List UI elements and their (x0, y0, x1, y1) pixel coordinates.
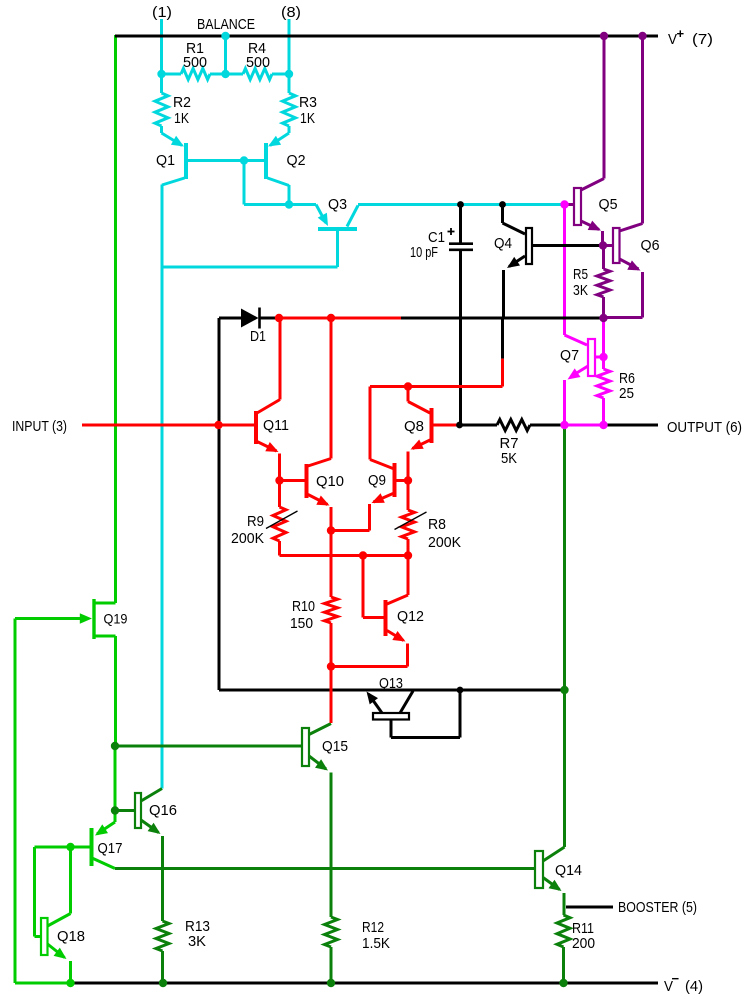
wire Q19 gate to bottom rail (15, 619, 73, 984)
junction R11 / V- (559, 979, 567, 987)
svg-text:1.5K: 1.5K (362, 935, 390, 952)
wire Q19 source down (114, 636, 117, 746)
transistor Q8 (404, 387, 460, 481)
svg-text:(8): (8) (281, 4, 301, 21)
transistor Q15 (302, 724, 348, 918)
transistor Q9 (331, 387, 408, 531)
junction Q19 source / Q15 base (111, 742, 119, 750)
svg-text:R12: R12 (362, 919, 384, 936)
transistor Q7 (560, 339, 604, 425)
junction Q10 collector top (327, 314, 335, 322)
wire pin8 lead (288, 19, 291, 74)
svg-text:+: + (677, 26, 685, 41)
svg-text:Q19: Q19 (104, 611, 128, 627)
svg-text:3K: 3K (188, 933, 206, 950)
junction V+ Q5 (600, 32, 608, 40)
junction V+ Q6 (638, 32, 646, 40)
junction input / D1 net (214, 421, 222, 429)
junction Q16 base / Q17 emitter (111, 806, 119, 814)
capacitor C1 (410, 206, 473, 423)
junction balance top (221, 32, 229, 40)
svg-text:500: 500 (183, 54, 207, 71)
resistor R6 (597, 318, 635, 425)
wire R1-R4 row (162, 73, 290, 76)
junction balance/R1/R4 (221, 70, 229, 78)
svg-text:1K: 1K (174, 110, 189, 127)
wire input net (277, 317, 402, 320)
junction Q13 base (457, 687, 464, 694)
wire V- rail (73, 982, 658, 985)
transistor Q5 (566, 188, 618, 244)
svg-text:10 pF: 10 pF (410, 244, 438, 261)
junction D1 cathode (275, 314, 283, 322)
junction R6 bottom / output (599, 421, 607, 429)
svg-text:Q16: Q16 (149, 802, 177, 819)
junction Q8 base / R7 / C1 (456, 422, 463, 429)
diode D1 (241, 308, 277, 346)
junction Q17 base / Q18 collector (66, 843, 74, 851)
wire Q2 collector to Q3 node (244, 161, 289, 205)
svg-text:Q5: Q5 (599, 196, 618, 213)
svg-text:200K: 200K (428, 534, 461, 551)
wire Q8 collector bus (370, 359, 503, 387)
transistor Q16 (115, 789, 177, 922)
transistor Q3 (289, 196, 358, 229)
transistor Q12 (363, 556, 424, 667)
resistor R12 (325, 917, 391, 983)
resistor R8 (395, 481, 462, 556)
wire Q12 emitter return (331, 665, 408, 668)
svg-text:INPUT (3): INPUT (3) (12, 418, 67, 435)
wire Q5 collector to V+ (581, 36, 604, 190)
junction Q8 emitter / Q9 base / R8 (404, 476, 412, 484)
transistor Q14 (535, 851, 582, 915)
junction C1 top (457, 201, 464, 208)
svg-text:R8: R8 (428, 516, 446, 533)
junction Q18 emitter / V- (66, 979, 74, 987)
svg-text:Q4: Q4 (494, 235, 512, 252)
wire input line (82, 424, 254, 427)
junction Q1-Q2 base (240, 156, 248, 164)
svg-text:(4): (4) (685, 978, 703, 995)
svg-text:OUTPUT (6): OUTPUT (6) (667, 419, 742, 436)
resistor R13 (156, 918, 210, 983)
transistor Q13 (367, 675, 461, 738)
junction R13 / V- (159, 979, 167, 987)
wire booster lead (566, 906, 613, 909)
wire Q3 collector return (162, 230, 338, 267)
junction R8 bottom / Q12 collector (404, 551, 412, 559)
wire Q17 base to Q18 base (35, 847, 71, 937)
svg-text:R9: R9 (247, 513, 264, 530)
svg-text:Q10: Q10 (316, 473, 344, 490)
svg-text:R3: R3 (299, 94, 317, 111)
wire Q15 collector (330, 667, 333, 724)
svg-text:Q15: Q15 (322, 738, 348, 755)
svg-text:D1: D1 (250, 328, 266, 345)
transistor Q1 (156, 126, 244, 185)
junction Q4 collector (499, 201, 506, 208)
resistor R4 (243, 40, 272, 80)
wire Q7 collector (565, 205, 588, 346)
wire mirror bus (280, 554, 409, 557)
svg-text:3K: 3K (573, 282, 588, 299)
wire V+ rail tap (left vertical) (114, 35, 117, 603)
junction Q7 collector / Q5 base (560, 200, 568, 208)
svg-text:R10: R10 (292, 598, 315, 615)
svg-text:Q7: Q7 (560, 347, 579, 364)
svg-text:Q14: Q14 (555, 862, 582, 879)
svg-text:Q3: Q3 (328, 196, 347, 213)
svg-text:BOOSTER (5): BOOSTER (5) (618, 899, 697, 916)
wire compensation node (401, 318, 601, 359)
svg-text:Q18: Q18 (57, 928, 85, 945)
svg-text:Q2: Q2 (287, 152, 306, 169)
node V- (4) (664, 971, 703, 995)
svg-text:500: 500 (246, 54, 270, 71)
wire V+ rail (115, 35, 658, 38)
wire Q3 to Q5 base (358, 203, 563, 206)
svg-text:R5: R5 (573, 266, 588, 283)
svg-text:(1): (1) (152, 4, 172, 21)
svg-text:Q17: Q17 (98, 840, 123, 857)
svg-text:5K: 5K (501, 450, 517, 467)
svg-text:(7): (7) (692, 31, 713, 48)
junction R5 bottom (599, 314, 607, 322)
junction Q12 base (359, 551, 367, 559)
transistor Q17 (71, 811, 123, 869)
junction Q5 emitter / Q6 base (599, 241, 607, 249)
junction R12 / V- (327, 979, 335, 987)
junction R10 bottom / Q12 emitter (327, 662, 335, 670)
wire output lead (605, 424, 658, 427)
wire Q16 base node (114, 746, 117, 811)
svg-text:150: 150 (290, 615, 313, 632)
wire D1 anode (219, 318, 241, 690)
svg-text:25: 25 (619, 385, 634, 402)
svg-text:1K: 1K (300, 110, 315, 127)
transistor Q11 (256, 318, 289, 481)
resistor R3 (283, 74, 318, 127)
wire balance tap (224, 36, 227, 74)
junction Q8 collector (404, 382, 412, 390)
junction pin8/R4 (285, 70, 293, 78)
wire emitter-follower rail (115, 867, 535, 870)
resistor R10 (290, 531, 338, 667)
wire Q6 collector to V+ (620, 36, 643, 231)
resistor R9 (231, 481, 298, 556)
svg-text:Q9: Q9 (368, 472, 386, 489)
svg-text:Q12: Q12 (397, 608, 424, 625)
svg-text:Q1: Q1 (156, 152, 175, 169)
transistor Q18 (41, 918, 85, 983)
transistor Q19 (15, 599, 128, 639)
transistor Q4 (494, 205, 601, 318)
transistor Q10 (280, 318, 345, 531)
wire pin1 lead (160, 19, 163, 74)
svg-text:Q11: Q11 (263, 417, 289, 434)
resistor R7 (460, 420, 563, 468)
junction Q2 collector (285, 200, 293, 208)
junction Q7 emitter / output (560, 421, 568, 429)
svg-text:Q13: Q13 (379, 675, 403, 692)
resistor R2 (155, 74, 191, 127)
resistor R11 (557, 915, 595, 983)
junction Q7 base / R6 top (599, 353, 607, 361)
svg-text:R2: R2 (173, 94, 191, 111)
svg-text:Q6: Q6 (641, 237, 660, 254)
svg-text:200K: 200K (231, 530, 264, 547)
svg-text:BALANCE: BALANCE (197, 16, 255, 33)
junction Q10 emitter (327, 526, 335, 534)
junction Q13 / Q14 net (560, 686, 568, 694)
junction Q11 emitter / R9 (275, 476, 283, 484)
wire Q1 collector tail (long vertical) (161, 185, 164, 789)
wire output to Q14 collector (543, 425, 565, 861)
resistor R1 (181, 40, 210, 80)
transistor Q2 (244, 126, 306, 186)
junction pin1/R1 (157, 70, 165, 78)
svg-text:−: − (672, 971, 680, 986)
node V+ (7) (668, 26, 713, 48)
wire Q18 collector (48, 847, 71, 926)
wire output joint (565, 424, 604, 427)
wire Q15 base (115, 745, 302, 748)
transistor Q6 (603, 228, 660, 318)
svg-text:200: 200 (572, 935, 595, 952)
svg-text:Q8: Q8 (404, 418, 424, 435)
wire Q13 rail (219, 689, 562, 692)
resistor R5 (573, 246, 610, 319)
